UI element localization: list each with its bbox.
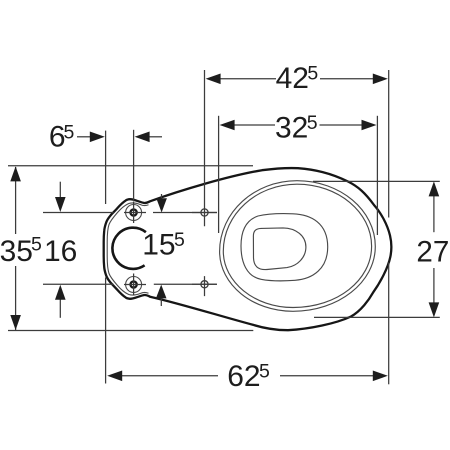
ext line bolt axis bottom xyxy=(43,283,114,285)
svg-text:5: 5 xyxy=(307,112,318,134)
svg-text:16: 16 xyxy=(44,235,77,268)
label 15.5 xyxy=(142,229,185,262)
arrow 62.5 right xyxy=(373,371,388,382)
svg-text:32: 32 xyxy=(275,112,308,145)
svg-text:5: 5 xyxy=(174,229,185,251)
ext line 42.5 left vertical xyxy=(204,70,206,226)
ext line 42.5/62.5 right vertical xyxy=(388,70,390,218)
ext line 6.5 right vertical xyxy=(133,130,135,201)
label 6.5 xyxy=(49,121,75,154)
dim line 6.5 xyxy=(77,136,90,138)
arrow 62.5 left xyxy=(107,371,122,382)
arrow 6.5 first (points right) xyxy=(90,132,105,143)
svg-text:5: 5 xyxy=(31,234,42,256)
toilet bowl outer outline xyxy=(104,168,392,330)
bolt hole 2 cross xyxy=(124,274,146,296)
arrow 35.5 up xyxy=(10,166,21,181)
arrow 15.5 down xyxy=(156,198,167,212)
svg-text:5: 5 xyxy=(259,360,270,382)
svg-text:35: 35 xyxy=(0,235,33,268)
svg-text:5: 5 xyxy=(64,121,75,143)
svg-text:62: 62 xyxy=(227,360,260,393)
dim line 15.5 vertical bottom stub xyxy=(160,298,162,307)
rim inner ellipse xyxy=(223,184,371,307)
label 32.5 xyxy=(275,112,318,145)
ext line 35.5 bottom xyxy=(8,330,253,332)
arrow 15.5 up xyxy=(156,285,167,299)
ext line 32.5 left vertical xyxy=(218,116,220,233)
dim line 27 vertical xyxy=(433,195,435,232)
bolt hole 1 ring xyxy=(131,209,137,215)
arrow 16 down xyxy=(55,197,66,212)
inlet C circle xyxy=(112,228,145,269)
ext line 35.5 top xyxy=(8,165,253,167)
arrow 35.5 down xyxy=(10,315,21,330)
svg-text:5: 5 xyxy=(307,63,318,85)
ext line 27 bottom xyxy=(314,316,440,318)
bolt hole 1 cross xyxy=(124,202,146,224)
arrow 27 up xyxy=(429,181,440,196)
dim line 16 vertical bottom xyxy=(59,298,61,318)
ext line bolt axis top xyxy=(43,212,114,214)
arrow 6.5 second (points left) xyxy=(135,132,150,143)
arrow 32.5 left xyxy=(220,120,235,131)
svg-text:15: 15 xyxy=(142,229,175,262)
dim line 62.5 xyxy=(121,375,218,377)
dim line 35.5 vertical xyxy=(15,167,17,234)
dim line 15.5 vertical top stub xyxy=(161,194,163,200)
dim line 16 vertical top xyxy=(59,182,61,199)
svg-text:27: 27 xyxy=(416,236,449,269)
ext line 6.5 left / 62.5 left vertical xyxy=(105,131,107,204)
flange inner thin line xyxy=(107,203,148,295)
bolt hole 2 ring xyxy=(131,281,137,287)
arrow 42.5 right xyxy=(373,74,388,85)
label 35.5 xyxy=(0,234,42,269)
bolt hole 2 outer circle xyxy=(126,277,142,293)
rim outer ellipse xyxy=(220,181,376,312)
fixing point crosshair bottom xyxy=(201,281,208,288)
bolt hole 1 outer circle xyxy=(126,205,142,221)
dim line 32.5 xyxy=(234,124,275,126)
arrow 32.5 right xyxy=(362,120,377,131)
arrow 16 up xyxy=(55,285,66,300)
label 42.5 xyxy=(276,62,319,95)
inner water surface shape xyxy=(253,228,306,270)
fixing point crosshair top xyxy=(201,209,208,216)
dim line 42.5 xyxy=(219,78,276,80)
ext line 27 top xyxy=(313,180,440,182)
svg-text:42: 42 xyxy=(276,62,309,95)
label 62.5 xyxy=(227,360,270,393)
arrow 42.5 left xyxy=(206,74,221,85)
arrow 27 down xyxy=(429,302,440,317)
ext line 32.5 right vertical xyxy=(376,116,378,235)
middle bowl shape xyxy=(241,214,328,281)
